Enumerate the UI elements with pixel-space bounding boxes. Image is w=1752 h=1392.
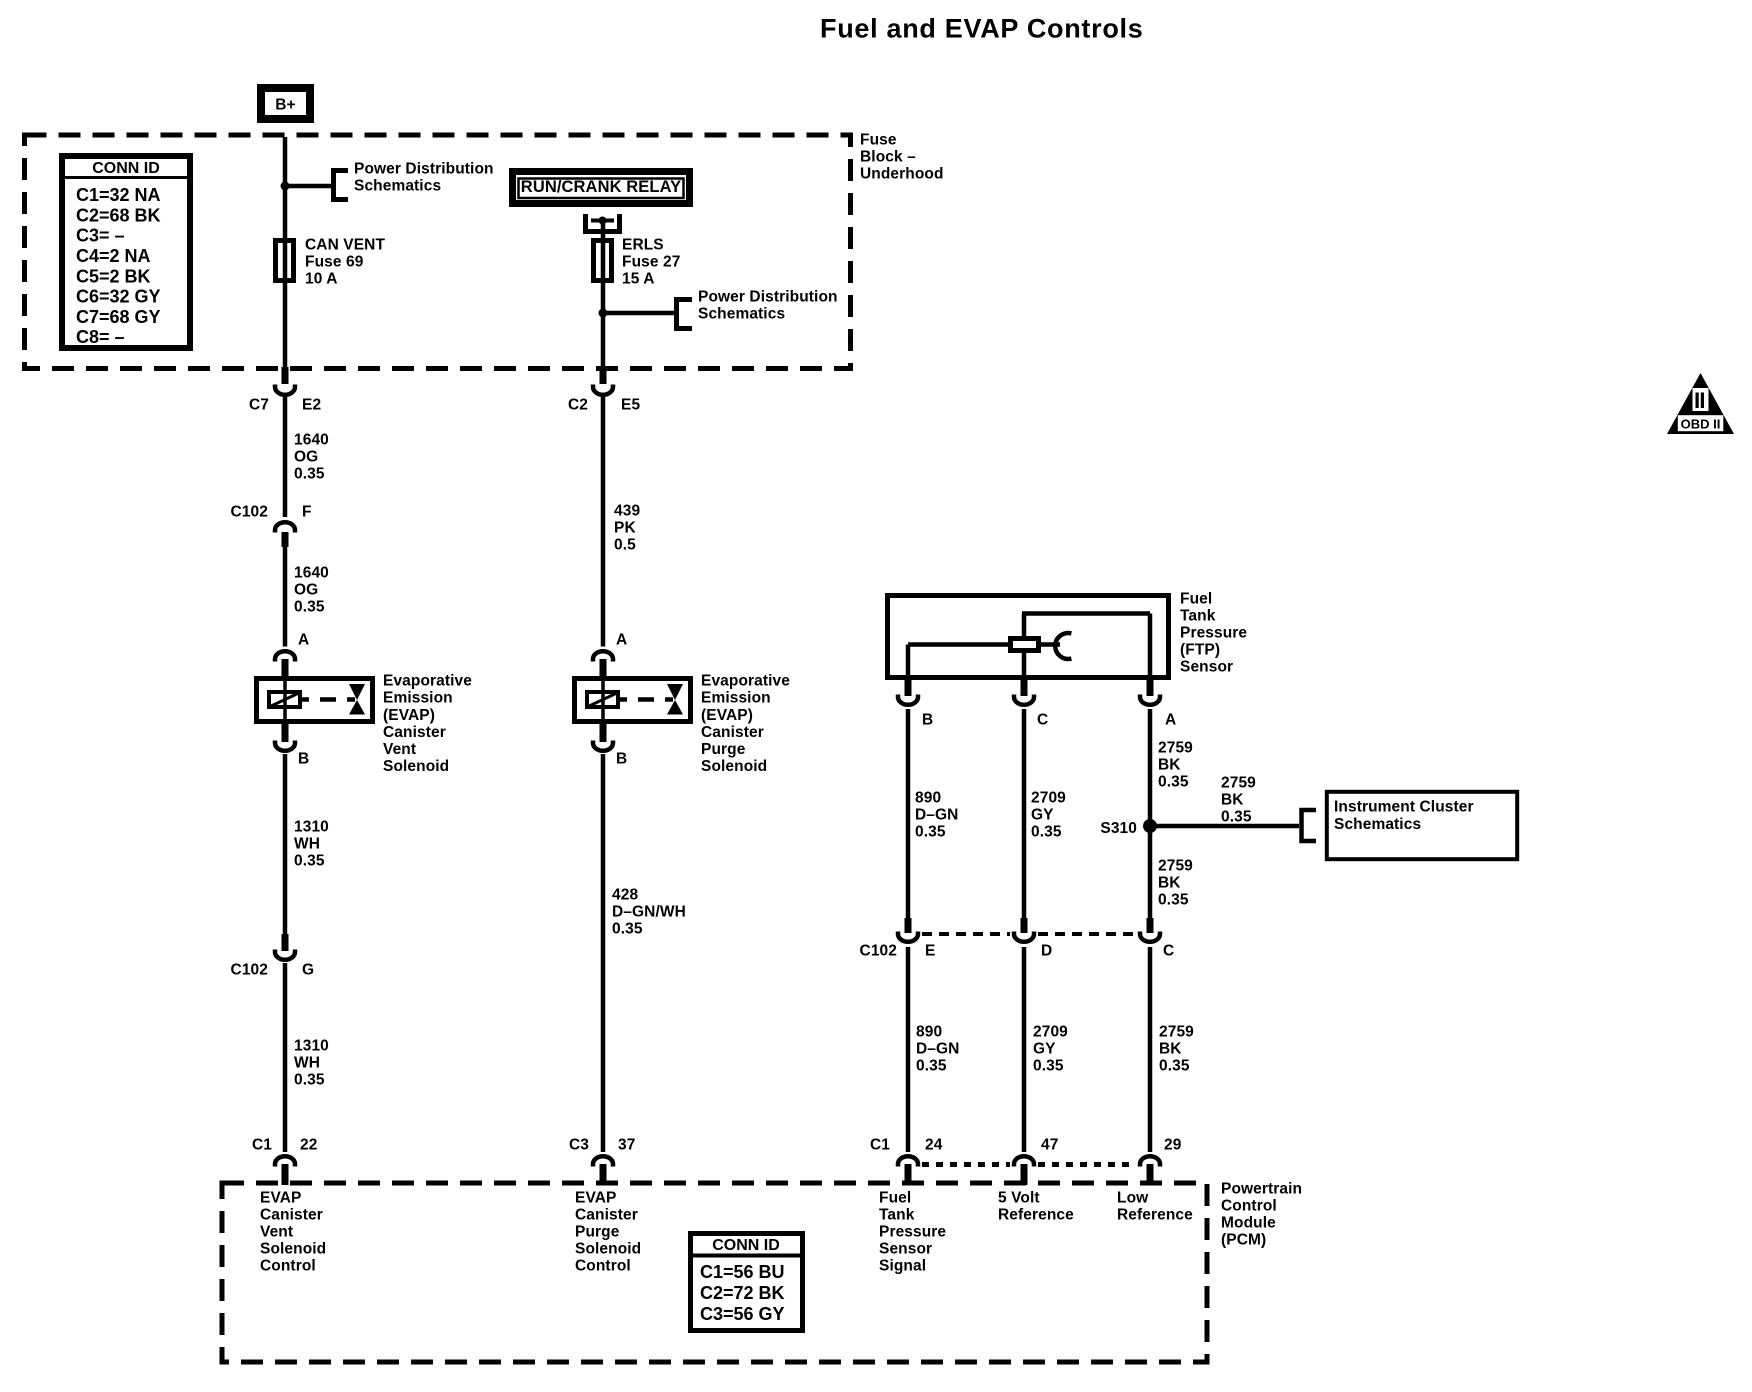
junction below fuse 27 <box>599 309 608 318</box>
svg-text:BK: BK <box>1158 875 1181 892</box>
powertrain control module label <box>1221 1181 1302 1249</box>
EVAP canister vent solenoid box <box>257 677 373 723</box>
svg-text:EVAP: EVAP <box>260 1190 301 1207</box>
svg-text:Solenoid: Solenoid <box>701 758 767 775</box>
power distribution schematics bracket 1 <box>334 171 349 200</box>
svg-text:OG: OG <box>294 449 318 466</box>
svg-text:GY: GY <box>1031 807 1054 824</box>
svg-text:G: G <box>302 962 314 979</box>
svg-text:C3= –: C3= – <box>76 226 125 246</box>
svg-text:C2=72 BK: C2=72 BK <box>700 1283 785 1303</box>
svg-text:Emission: Emission <box>383 690 453 707</box>
svg-text:0.35: 0.35 <box>612 921 643 938</box>
dashed connector link D-C <box>1038 932 1136 936</box>
svg-text:0.35: 0.35 <box>294 1072 325 1089</box>
svg-text:Fuel: Fuel <box>1180 591 1212 608</box>
fuse CAN VENT Fuse 69 10 A <box>276 241 294 281</box>
svg-text:A: A <box>1165 712 1176 729</box>
svg-text:428: 428 <box>612 887 638 904</box>
svg-text:S310: S310 <box>1100 820 1137 837</box>
svg-text:(PCM): (PCM) <box>1221 1232 1266 1249</box>
svg-text:BK: BK <box>1159 1041 1182 1058</box>
fuel tank pressure sensor box <box>888 596 1169 679</box>
svg-text:Schematics: Schematics <box>1334 816 1421 833</box>
svg-text:B: B <box>616 751 627 768</box>
svg-text:EVAP: EVAP <box>575 1190 616 1207</box>
svg-text:B: B <box>298 751 309 768</box>
svg-text:A: A <box>298 632 309 649</box>
connector PCM pin 24 <box>898 1156 918 1185</box>
svg-text:Underhood: Underhood <box>860 166 944 183</box>
OBD II emissions symbol <box>1667 373 1734 434</box>
svg-text:(FTP): (FTP) <box>1180 642 1220 659</box>
svg-text:0.35: 0.35 <box>1158 892 1189 909</box>
svg-text:C1: C1 <box>870 1137 890 1154</box>
wire junction to power distribution bracket <box>285 184 331 189</box>
svg-text:PK: PK <box>614 520 636 537</box>
svg-text:(EVAP): (EVAP) <box>701 707 753 724</box>
svg-text:Canister: Canister <box>383 724 446 741</box>
wire C2 to purge solenoid A (439 PK) <box>601 395 606 647</box>
svg-text:0.35: 0.35 <box>1159 1058 1190 1075</box>
wire FTP C to C102 D (2709 GY) <box>1022 709 1027 919</box>
svg-text:E5: E5 <box>621 397 640 414</box>
wire label 2759 BK 0.35 (lower) <box>1159 1024 1194 1075</box>
svg-text:Canister: Canister <box>701 724 764 741</box>
svg-text:GY: GY <box>1033 1041 1056 1058</box>
svg-text:Purge: Purge <box>701 741 746 758</box>
svg-text:C2: C2 <box>568 397 588 414</box>
svg-text:2709: 2709 <box>1031 790 1066 807</box>
svg-text:C5=2 BK: C5=2 BK <box>76 266 151 286</box>
svg-text:F: F <box>302 504 312 521</box>
svg-text:Control: Control <box>575 1258 631 1275</box>
svg-text:890: 890 <box>916 1024 942 1041</box>
svg-text:Pressure: Pressure <box>1180 625 1247 642</box>
svg-text:0.5: 0.5 <box>614 537 636 554</box>
svg-text:Fuse 69: Fuse 69 <box>305 254 364 271</box>
svg-text:WH: WH <box>294 836 320 853</box>
connector C2/E5 <box>593 367 613 395</box>
fuse block underhood dashed box <box>25 135 851 369</box>
svg-text:Block –: Block – <box>860 149 916 166</box>
B+ power symbol <box>261 88 310 119</box>
svg-text:Instrument Cluster: Instrument Cluster <box>1334 799 1474 816</box>
svg-text:Solenoid: Solenoid <box>383 758 449 775</box>
svg-text:Reference: Reference <box>998 1207 1074 1224</box>
wire B+ to fuse 69 <box>283 137 288 371</box>
svg-text:0.35: 0.35 <box>916 1058 947 1075</box>
svg-text:C6=32 GY: C6=32 GY <box>76 287 161 307</box>
svg-text:C3=56 GY: C3=56 GY <box>700 1304 785 1324</box>
svg-text:890: 890 <box>915 790 941 807</box>
connector B of purge solenoid <box>593 722 613 751</box>
svg-text:C1: C1 <box>252 1137 272 1154</box>
svg-text:Reference: Reference <box>1117 1207 1193 1224</box>
svg-text:Schematics: Schematics <box>354 178 441 195</box>
CONN ID table (PCM) <box>691 1234 803 1331</box>
svg-text:Evaporative: Evaporative <box>383 673 472 690</box>
svg-text:0.35: 0.35 <box>1221 809 1252 826</box>
svg-text:CONN ID: CONN ID <box>92 160 160 177</box>
svg-text:Control: Control <box>1221 1198 1277 1215</box>
wire C7 to C102 F (1640 OG) <box>283 395 288 517</box>
EVAP canister vent solenoid label <box>383 673 472 776</box>
wire label 1640 OG 0.35 (upper) <box>294 432 329 483</box>
svg-text:Fuse: Fuse <box>860 132 897 149</box>
svg-text:C: C <box>1037 712 1048 729</box>
wire label 1310 WH 0.35 (lower) <box>294 1038 329 1089</box>
svg-text:D–GN/WH: D–GN/WH <box>612 904 686 921</box>
svg-text:22: 22 <box>300 1137 317 1154</box>
svg-text:B: B <box>922 712 933 729</box>
svg-text:Fuel and EVAP Controls: Fuel and EVAP Controls <box>820 14 1143 44</box>
svg-text:Module: Module <box>1221 1215 1276 1232</box>
svg-text:Powertrain: Powertrain <box>1221 1181 1302 1198</box>
svg-text:Signal: Signal <box>879 1258 926 1275</box>
wire FTP A to S310 (2759 BK) <box>1148 709 1153 919</box>
connector PCM pin 37 <box>593 1156 613 1185</box>
svg-text:OBD II: OBD II <box>1681 417 1721 432</box>
svg-text:Fuel: Fuel <box>879 1190 911 1207</box>
svg-text:24: 24 <box>925 1137 943 1154</box>
svg-text:Solenoid: Solenoid <box>575 1241 641 1258</box>
svg-text:CONN ID: CONN ID <box>712 1237 780 1254</box>
net label EVAP canister purge solenoid control <box>575 1190 641 1275</box>
svg-text:D–GN: D–GN <box>915 807 958 824</box>
power distribution schematics bracket 2 <box>677 300 693 329</box>
svg-text:Vent: Vent <box>260 1224 293 1241</box>
svg-text:CAN VENT: CAN VENT <box>305 237 385 254</box>
svg-text:2759: 2759 <box>1158 858 1193 875</box>
EVAP canister purge solenoid box <box>575 677 691 723</box>
svg-text:10 A: 10 A <box>305 271 338 288</box>
wire B to PCM 37 (428 D-GN/WH) <box>601 754 606 1152</box>
svg-text:2759: 2759 <box>1221 775 1256 792</box>
connector C7/E2 <box>275 367 295 395</box>
connector PCM pin 29 <box>1140 1156 1160 1185</box>
svg-text:C102: C102 <box>231 504 268 521</box>
wire C102 D to PCM 47 (2709 GY) <box>1022 947 1027 1152</box>
wire label 1640 OG 0.35 (lower) <box>294 565 329 616</box>
svg-text:Sensor: Sensor <box>879 1241 932 1258</box>
power distribution schematics label 1 <box>354 161 494 195</box>
svg-text:C102: C102 <box>860 943 897 960</box>
connector A of vent solenoid <box>275 651 295 677</box>
svg-text:Sensor: Sensor <box>1180 659 1233 676</box>
svg-text:C1=32 NA: C1=32 NA <box>76 185 161 205</box>
svg-text:2759: 2759 <box>1159 1024 1194 1041</box>
svg-text:Canister: Canister <box>575 1207 638 1224</box>
dashed connector link E-D <box>922 932 1010 936</box>
svg-text:D: D <box>1041 943 1052 960</box>
svg-text:1640: 1640 <box>294 565 329 582</box>
wire label 2759 BK 0.35 (below S310) <box>1158 858 1193 909</box>
CONN ID table (fuse block) <box>62 156 190 348</box>
connector C102/G <box>275 934 295 960</box>
svg-text:1310: 1310 <box>294 1038 329 1055</box>
fuel tank pressure sensor label <box>1180 591 1247 676</box>
svg-text:Canister: Canister <box>260 1207 323 1224</box>
wire C102 C to PCM 29 (2759 BK) <box>1148 947 1153 1152</box>
connector C102/E <box>898 918 918 942</box>
svg-text:BK: BK <box>1221 792 1244 809</box>
junction at B+ feed <box>281 182 290 191</box>
svg-text:0.35: 0.35 <box>294 853 325 870</box>
svg-text:A: A <box>616 632 627 649</box>
svg-text:C1=56 BU: C1=56 BU <box>700 1262 785 1282</box>
svg-text:2709: 2709 <box>1033 1024 1068 1041</box>
svg-text:RUN/CRANK RELAY: RUN/CRANK RELAY <box>521 178 681 196</box>
wire label 439 PK 0.5 <box>614 503 640 554</box>
svg-text:15 A: 15 A <box>622 271 655 288</box>
wire C102 G to PCM 22 (1310 WH) <box>283 963 288 1152</box>
svg-text:29: 29 <box>1164 1137 1182 1154</box>
wire B to C102 G (1310 WH) <box>283 754 288 935</box>
fuse 69 value label <box>305 237 385 288</box>
svg-text:Solenoid: Solenoid <box>260 1241 326 1258</box>
svg-text:Tank: Tank <box>1180 608 1216 625</box>
connector A of purge solenoid <box>593 651 613 677</box>
svg-text:Tank: Tank <box>879 1207 915 1224</box>
svg-text:E2: E2 <box>302 397 321 414</box>
svg-text:2759: 2759 <box>1158 740 1193 757</box>
wire junction to power distribution bracket 2 <box>603 311 674 316</box>
svg-text:C7=68 GY: C7=68 GY <box>76 307 161 327</box>
svg-text:1310: 1310 <box>294 819 329 836</box>
connector PCM pin 47 <box>1014 1156 1034 1185</box>
wire label 1310 WH 0.35 (upper) <box>294 819 329 870</box>
wire label 2709 GY 0.35 (upper) <box>1031 790 1066 841</box>
svg-text:C4=2 NA: C4=2 NA <box>76 246 151 266</box>
svg-text:C2=68 BK: C2=68 BK <box>76 205 161 225</box>
svg-text:C8= –: C8= – <box>76 327 125 347</box>
svg-text:C102: C102 <box>231 962 268 979</box>
instrument cluster bracket <box>1302 810 1317 841</box>
RUN/CRANK RELAY box <box>513 172 690 204</box>
wire C102 E to PCM 24 (890 D-GN) <box>906 947 911 1152</box>
svg-text:5 Volt: 5 Volt <box>998 1190 1040 1207</box>
connector B of FTP sensor <box>898 677 918 705</box>
svg-text:D–GN: D–GN <box>916 1041 959 1058</box>
wire label 890 D-GN 0.35 (upper) <box>915 790 958 841</box>
fuse ERLS Fuse 27 15 A <box>594 241 612 281</box>
svg-text:C3: C3 <box>569 1137 589 1154</box>
svg-text:B+: B+ <box>275 97 295 114</box>
wire label 428 D-GN/WH 0.35 <box>612 887 686 938</box>
svg-text:37: 37 <box>618 1137 635 1154</box>
svg-text:Fuse 27: Fuse 27 <box>622 254 680 271</box>
svg-text:0.35: 0.35 <box>294 599 325 616</box>
svg-text:47: 47 <box>1041 1137 1058 1154</box>
svg-text:(EVAP): (EVAP) <box>383 707 435 724</box>
net label low reference <box>1117 1190 1193 1224</box>
svg-text:Evaporative: Evaporative <box>701 673 790 690</box>
svg-text:Power Distribution: Power Distribution <box>698 289 838 306</box>
svg-text:Control: Control <box>260 1258 316 1275</box>
splice S310 <box>1143 819 1157 833</box>
svg-text:Purge: Purge <box>575 1224 620 1241</box>
svg-text:Low: Low <box>1117 1190 1149 1207</box>
svg-text:BK: BK <box>1158 757 1181 774</box>
svg-text:E: E <box>925 943 935 960</box>
svg-text:0.35: 0.35 <box>294 466 325 483</box>
EVAP canister purge solenoid label <box>701 673 790 776</box>
power distribution schematics label 2 <box>698 289 838 323</box>
svg-text:ERLS: ERLS <box>622 237 664 254</box>
wire FTP B to C102 E (890 D-GN) <box>906 709 911 919</box>
net label 5 volt reference <box>998 1190 1074 1224</box>
wire C102 F to solenoid A (1640 OG) <box>283 547 288 647</box>
svg-text:0.35: 0.35 <box>1158 774 1189 791</box>
wire label 2759 BK 0.35 (to instrument cluster) <box>1221 775 1256 826</box>
connector PCM pin 22 <box>275 1156 295 1185</box>
wire relay to fuse 27 <box>601 222 606 371</box>
svg-text:0.35: 0.35 <box>915 824 946 841</box>
svg-text:C7: C7 <box>249 397 269 414</box>
connector C102/F <box>275 522 295 547</box>
net label EVAP canister vent solenoid control <box>260 1190 326 1275</box>
svg-text:WH: WH <box>294 1055 320 1072</box>
fuse 27 value label <box>622 237 680 288</box>
svg-text:OG: OG <box>294 582 318 599</box>
svg-text:C: C <box>1163 943 1174 960</box>
svg-text:Power Distribution: Power Distribution <box>354 161 494 178</box>
fuse block underhood label <box>860 132 944 183</box>
connector B of vent solenoid <box>275 722 295 751</box>
svg-text:439: 439 <box>614 503 640 520</box>
wire label 2709 GY 0.35 (lower) <box>1033 1024 1068 1075</box>
svg-text:1640: 1640 <box>294 432 329 449</box>
powertrain control module dashed box <box>222 1183 1207 1362</box>
connector A of FTP sensor <box>1140 677 1160 705</box>
svg-text:Schematics: Schematics <box>698 306 785 323</box>
relay output terminal bracket <box>586 214 620 232</box>
dotted connector link 24-47 <box>922 1162 1010 1167</box>
wire S310 to instrument cluster <box>1150 824 1299 829</box>
connector C of FTP sensor <box>1014 677 1034 705</box>
svg-text:Vent: Vent <box>383 741 416 758</box>
instrument cluster schematics box <box>1327 792 1517 859</box>
connector C102/D <box>1014 918 1034 942</box>
connector C102/C <box>1140 918 1160 942</box>
net label fuel tank pressure sensor signal <box>879 1190 946 1275</box>
svg-text:Pressure: Pressure <box>879 1224 946 1241</box>
wire label 890 D-GN 0.35 (lower) <box>916 1024 959 1075</box>
svg-text:0.35: 0.35 <box>1033 1058 1064 1075</box>
wire label 2759 BK 0.35 (above S310) <box>1158 740 1193 791</box>
dotted connector link 47-29 <box>1038 1162 1136 1167</box>
svg-text:Emission: Emission <box>701 690 771 707</box>
svg-text:0.35: 0.35 <box>1031 824 1062 841</box>
